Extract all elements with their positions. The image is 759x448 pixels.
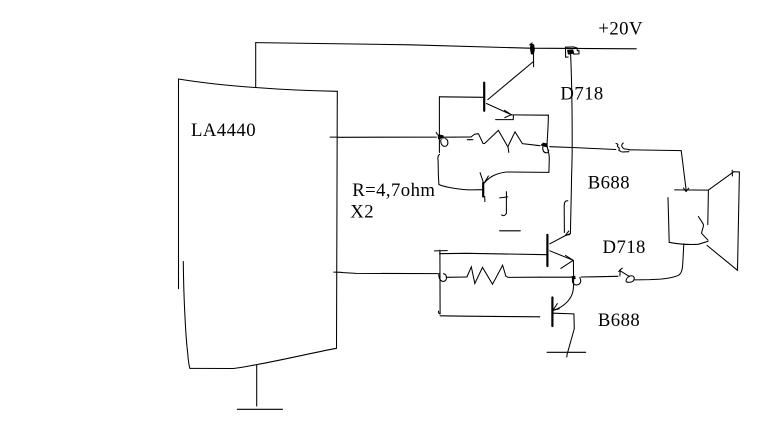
svg-text:LA4440: LA4440 [191,120,256,141]
svg-text:X2: X2 [350,202,374,223]
svg-text:B688: B688 [598,310,640,331]
svg-text:+20V: +20V [598,18,643,39]
svg-text:B688: B688 [588,173,630,194]
svg-text:D718: D718 [560,83,603,104]
svg-text:R=4,7ohm: R=4,7ohm [352,180,435,201]
svg-text:D718: D718 [603,237,646,258]
